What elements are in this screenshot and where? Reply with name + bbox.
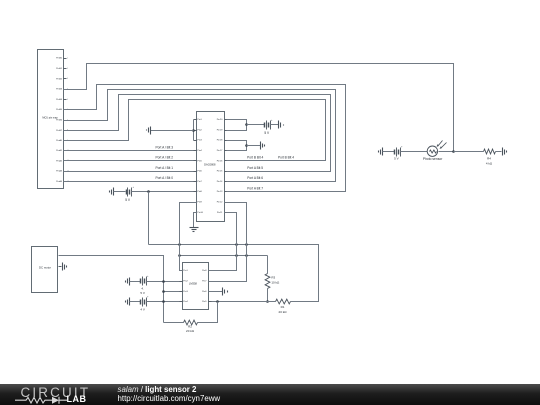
ground below U1 [190, 228, 199, 232]
wire R3 to net3 [267, 289, 269, 302]
svg-text:Port B Bit 4: Port B Bit 4 [247, 156, 263, 160]
photo sensor PR1 [423, 141, 447, 162]
IC U1 DAC0808 [194, 112, 227, 222]
svg-text:5 V: 5 V [264, 131, 270, 135]
svg-text:Pin13: Pin13 [217, 191, 223, 193]
svg-text:Pin8: Pin8 [202, 270, 207, 272]
battery V1 5 V [125, 186, 134, 202]
svg-text:PinB7: PinB7 [56, 130, 63, 132]
svg-text:Port A Bit 6: Port A Bit 6 [247, 176, 263, 180]
svg-text:Pin20: Pin20 [217, 119, 223, 121]
battery V5 5 V [394, 146, 403, 161]
wire ground to U1 pin2 [151, 130, 194, 132]
svg-text:Pin17: Pin17 [217, 150, 223, 152]
resistor R1 20 kOhm [276, 299, 291, 314]
svg-text:5: 5 [67, 99, 68, 101]
svg-text:DAC0808: DAC0808 [204, 163, 216, 167]
wire net2 to R3 [267, 256, 269, 274]
wire MCU pin4 to photo-sensor node (top run) [64, 64, 454, 152]
wire R2 right lead [198, 302, 218, 323]
svg-text:R2: R2 [188, 324, 192, 328]
svg-text:Port A Bit 5: Port A Bit 5 [247, 166, 263, 170]
CircuitLab logo [21, 385, 101, 397]
wire ground to battery V3 [130, 281, 141, 283]
wire MCU pin10 to U1 pin4 (Port A/Bit 3) [64, 150, 194, 152]
wire MCU pin11 to U1 pin5 (Port A/Bit 2) [64, 160, 194, 162]
svg-text:Pin2: Pin2 [183, 281, 188, 283]
svg-text:2: 2 [67, 68, 68, 70]
svg-text:Pin18: Pin18 [217, 140, 223, 142]
svg-text:MCU pin map: MCU pin map [42, 116, 58, 119]
node net1 x pin12 riser [245, 243, 248, 246]
svg-text:Pin3: Pin3 [183, 291, 188, 293]
node net2 x pin12 riser [245, 254, 248, 257]
svg-text:Pin14: Pin14 [217, 181, 223, 183]
battery V3 4.5 V [140, 275, 149, 295]
svg-text:20 kΩ: 20 kΩ [279, 310, 288, 314]
svg-text:Port A / Bit 1: Port A / Bit 1 [156, 166, 174, 170]
svg-text:Pin15: Pin15 [217, 171, 223, 173]
ground at battery V3 [126, 278, 130, 286]
node R3 on net3 [266, 300, 269, 303]
ground at U1 pins17-18 [261, 142, 265, 150]
svg-text:Port B Bit 4: Port B Bit 4 [278, 156, 294, 160]
wire R2 left lead [164, 322, 184, 324]
svg-text:PinA2: PinA2 [56, 159, 63, 162]
battery V2 5 V [264, 119, 273, 135]
wire U1 pin9 to U2 pin1 [180, 203, 197, 271]
svg-text:R3: R3 [271, 276, 275, 280]
wire MCU pin13 to U1 pin7 (Port A/Bit 0) [64, 181, 194, 183]
wire ground to battery V5 [383, 151, 395, 153]
svg-text:Port A Bit 7: Port A Bit 7 [247, 187, 263, 191]
wire tie U1 pins 17-18 [227, 141, 247, 151]
ground at battery V4 [126, 298, 130, 306]
wire ground to battery V1 [114, 191, 126, 193]
svg-text:Pin3: Pin3 [197, 140, 202, 142]
wire battery V2 to ground [271, 124, 279, 126]
wire junction down to net1 bus [148, 192, 150, 245]
op-amp U2 LM358 [180, 263, 212, 310]
svg-text:Pin19: Pin19 [217, 129, 223, 131]
svg-text:+: + [271, 119, 273, 122]
wire tie to ground [247, 145, 261, 147]
node photo sensor / R4 junction [452, 150, 455, 153]
svg-text:PinB0: PinB0 [56, 58, 63, 60]
wire loop MCU pin6 to U1 pin13 (Port A Bit 7) [64, 85, 346, 192]
svg-text:Pin7: Pin7 [202, 281, 207, 283]
wire U2 pin6 to ground [209, 291, 223, 293]
svg-text:PinB3: PinB3 [56, 89, 63, 91]
wire U1 pin10 to ground [194, 213, 197, 228]
wire MCU pin12 to U1 pin6 (Port A/Bit 1) [64, 171, 194, 173]
DC motor M1 [32, 247, 62, 293]
ground at R4 [503, 148, 507, 156]
ground at battery V2 [279, 121, 284, 129]
ground at U2 pin6 [223, 288, 228, 296]
node battery rail x pin4 row [162, 300, 165, 303]
svg-text:+: + [147, 275, 149, 278]
svg-text:DC motor: DC motor [39, 266, 51, 270]
svg-text:20 kΩ: 20 kΩ [186, 329, 195, 333]
wire node to R4 [454, 151, 484, 153]
svg-text:4 kΩ: 4 kΩ [486, 161, 493, 165]
svg-text:PinA4: PinA4 [56, 180, 63, 183]
svg-text:Pin16: Pin16 [217, 160, 223, 162]
svg-text:Pin1: Pin1 [183, 270, 188, 272]
svg-text:Pin4: Pin4 [197, 150, 202, 152]
MCU pin map U3 [38, 50, 70, 189]
svg-text:4 V: 4 V [140, 307, 145, 311]
svg-text:Pin5: Pin5 [202, 301, 207, 303]
wire photo sensor to node [439, 151, 454, 153]
wire tie U1 pins 19-20 [227, 120, 247, 131]
svg-text:3: 3 [67, 78, 68, 80]
battery V4 4 V [140, 296, 149, 312]
svg-text:Port A / Bit 0: Port A / Bit 0 [156, 176, 174, 180]
svg-text:PinB1: PinB1 [56, 68, 63, 70]
resistor R3 10 kOhm [265, 274, 280, 289]
wire net2 bus horizontal [180, 255, 268, 257]
wire DC motor pin1 to battery rail [59, 256, 164, 323]
svg-text:Pin2: Pin2 [197, 129, 202, 131]
svg-text:Pin6: Pin6 [197, 171, 202, 173]
svg-text:5 V: 5 V [125, 198, 131, 202]
svg-text:Pin12: Pin12 [217, 202, 223, 204]
node net1 x pin9 riser [178, 243, 181, 246]
schematic url [118, 394, 221, 403]
wire U2 pin5 to R1 [212, 301, 276, 303]
svg-text:1: 1 [67, 58, 68, 60]
node U1 pin2 tie [192, 129, 195, 132]
svg-text:Pin11: Pin11 [217, 212, 223, 214]
ground at battery V1 [110, 188, 114, 196]
svg-text:+: + [133, 186, 135, 189]
svg-text:PinA1: PinA1 [56, 149, 63, 152]
node U1 pin19/20 tie [245, 123, 248, 126]
svg-text:Pin10: Pin10 [197, 212, 203, 214]
node net1 x pin11 riser [235, 243, 238, 246]
svg-text:R1: R1 [281, 305, 285, 309]
svg-text:Pin4: Pin4 [183, 301, 188, 303]
schematic title [118, 385, 197, 394]
svg-text:Pin5: Pin5 [197, 160, 202, 162]
wire battery V1 to U1 pin8 [132, 191, 194, 193]
wire U1 pin12 to U2 pin7 [209, 203, 247, 282]
wire loop MCU pin7 to U1 pin14 (Port A Bit 6) [64, 90, 336, 182]
svg-text:Pin6: Pin6 [202, 291, 207, 293]
svg-text:+: + [147, 296, 149, 299]
svg-text:+: + [401, 146, 403, 149]
svg-text:Photo sensor: Photo sensor [423, 157, 443, 161]
svg-text:5 V: 5 V [394, 157, 399, 161]
node net2 x pin9 riser [178, 254, 181, 257]
svg-text:PinB4: PinB4 [56, 99, 63, 101]
wire tie U1 pins 1-3 [193, 120, 195, 141]
node battery V1 / feedback junction [147, 190, 150, 193]
svg-text:Pin8: Pin8 [197, 191, 202, 193]
wire battery V3 to U2 pin2 [147, 281, 180, 283]
node battery rail x pin3 row [162, 290, 165, 293]
wire R4 to ground [496, 151, 502, 153]
svg-text:10 kΩ: 10 kΩ [271, 280, 280, 284]
svg-text:Pin9: Pin9 [197, 202, 202, 204]
svg-text:Port A / Bit 2: Port A / Bit 2 [156, 156, 174, 160]
svg-text:PinB5: PinB5 [56, 109, 63, 111]
wire U1 pin11 to U2 pin8 [209, 213, 237, 271]
ground at battery V5 [379, 148, 383, 156]
node net2 x pin11 riser [235, 254, 238, 257]
svg-text:PinA3: PinA3 [56, 170, 63, 173]
wire tie to battery V2 [247, 124, 265, 126]
wire rail to U2 pin3 [164, 291, 180, 293]
svg-text:LM358: LM358 [189, 282, 197, 286]
resistor R4 4 kOhm [484, 149, 496, 165]
wire net1 bus horizontal [149, 245, 319, 302]
wire ground to battery V4 [130, 301, 141, 303]
svg-text:Pin1: Pin1 [197, 119, 202, 121]
wire loop MCU pin8 to U1 pin15 (Port A Bit 5) [64, 95, 331, 172]
svg-text:Pin7: Pin7 [197, 181, 202, 183]
node R2 riser on net3 [216, 300, 219, 303]
svg-text:5 V: 5 V [140, 291, 145, 295]
svg-text:PinB2: PinB2 [56, 78, 63, 80]
resistor R2 20 kOhm [184, 320, 198, 333]
node U1 pin17/18 tie [245, 144, 248, 147]
logo resistor squiggle [15, 398, 52, 404]
wire battery V4 to U2 pin4 [147, 301, 180, 303]
svg-text:Port A / Bit 3: Port A / Bit 3 [156, 145, 174, 149]
logo diode [52, 397, 59, 404]
svg-text:PinB6: PinB6 [56, 120, 63, 122]
node battery rail x pin2 row [162, 280, 165, 283]
wire loop MCU pin9 to U1 pin16 (Port B Bit 4) [64, 100, 326, 161]
wire battery V5 to photo sensor [401, 151, 428, 153]
svg-text:PinA0: PinA0 [56, 139, 63, 142]
ground at U1 pin2 [147, 127, 151, 135]
svg-text:R4: R4 [487, 157, 491, 161]
ground at DC motor pin 2 [63, 263, 67, 271]
